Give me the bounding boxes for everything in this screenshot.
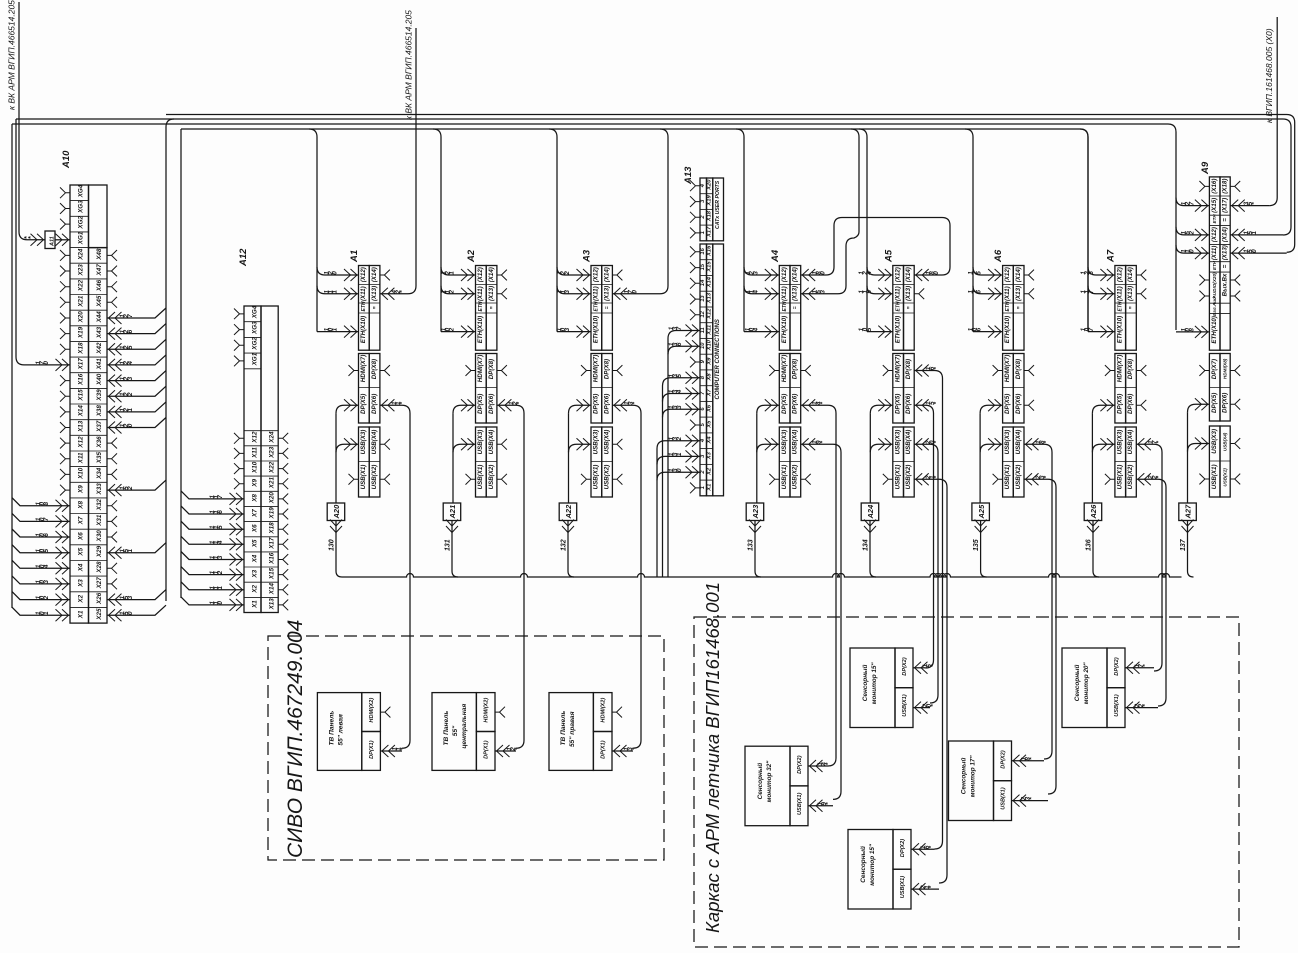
svg-text:=: = [906,306,912,309]
svg-text:USB(X1): USB(X1) [593,465,600,490]
svg-text:=: = [604,306,610,309]
svg-text:0: 0 [1188,249,1195,253]
svg-text:USB(X1): USB(X1) [477,465,484,490]
svg-text:А3: А3 [582,249,593,263]
svg-text:X2: X2 [252,585,259,594]
svg-text:DP(X1): DP(X1) [484,740,490,758]
svg-text:5: 5 [43,548,50,552]
svg-text:USB(X3): USB(X3) [1117,430,1124,455]
svg-text:(X17): (X17) [1222,198,1229,213]
svg-text:135: 135 [973,539,980,551]
svg-text:DP(X6): DP(X6) [905,394,912,414]
svg-text:ETH(X10): ETH(X10) [593,316,600,344]
svg-text:1: 1 [43,611,50,615]
svg-text:USB(X1): USB(X1) [1004,465,1011,490]
svg-text:X11: X11 [78,452,85,464]
svg-text:(X14): (X14) [1222,227,1229,242]
svg-text:(X14): (X14) [603,267,610,282]
svg-text:к ВК АРМ ВГИП.466514.205: к ВК АРМ ВГИП.466514.205 [404,10,414,120]
svg-text:X31: X31 [96,514,103,527]
svg-text:X35: X35 [96,451,103,464]
svg-text:X18: X18 [707,210,713,222]
svg-text:DP(X8): DP(X8) [792,359,799,379]
svg-text:DP(X6): DP(X6) [371,394,378,414]
svg-text:USB(X4): USB(X4) [905,430,912,455]
svg-text:А1: А1 [349,250,360,263]
svg-text:X18: X18 [269,522,276,535]
svg-text:USB(X2): USB(X2) [1223,468,1228,487]
svg-text:X12: X12 [78,436,85,449]
svg-text:(X11): (X11) [360,286,367,301]
svg-text:ETH: ETH [1212,260,1217,270]
svg-text:12: 12 [700,310,706,317]
svg-text:ETH: ETH [594,301,600,311]
svg-text:DP(X5): DP(X5) [360,394,367,414]
svg-text:USB(X3): USB(X3) [894,430,901,455]
svg-text:1: 1 [332,290,339,294]
svg-text:1: 1 [700,231,706,234]
svg-text:X30: X30 [96,530,103,543]
svg-text:3: 3 [43,580,50,584]
svg-text:X12: X12 [252,431,259,444]
svg-text:0: 0 [676,468,683,472]
svg-text:ETH: ETH [1005,301,1011,311]
svg-text:ETH: ETH [1118,301,1124,311]
svg-text:X1: X1 [78,610,85,619]
svg-text:USB(X4): USB(X4) [603,430,610,455]
svg-text:X17: X17 [269,537,276,550]
svg-text:0: 0 [332,271,339,275]
svg-text:USB(X2): USB(X2) [1127,465,1134,490]
svg-text:А26: А26 [1089,504,1098,520]
svg-text:15: 15 [700,263,706,270]
svg-text:X6: X6 [252,524,259,533]
svg-text:USB(X3): USB(X3) [593,430,600,455]
svg-text:USB(X1): USB(X1) [1117,465,1124,490]
svg-text:USB(X1): USB(X1) [900,876,906,899]
svg-text:HDMI(X2): HDMI(X2) [601,698,607,723]
svg-text:А13: А13 [683,166,694,185]
svg-text:DP(X5): DP(X5) [1004,394,1011,414]
svg-text:X40: X40 [96,373,103,386]
svg-text:X5: X5 [707,420,713,429]
svg-text:X6: X6 [78,532,85,541]
svg-text:DP(X5): DP(X5) [1211,393,1218,413]
svg-text:X33: X33 [96,483,103,496]
svg-text:X15: X15 [78,389,85,402]
svg-text:7: 7 [1188,201,1195,205]
svg-text:монитор 17": монитор 17" [970,755,977,798]
svg-text:X24: X24 [78,248,85,261]
svg-text:14: 14 [700,279,706,286]
svg-text:3: 3 [676,405,683,409]
svg-text:USB(X2): USB(X2) [488,465,495,490]
svg-text:А23: А23 [751,504,760,520]
svg-text:X2: X2 [707,467,713,476]
svg-text:X6: X6 [707,404,713,413]
svg-text:X20: X20 [78,311,85,324]
svg-text:монитор 15": монитор 15" [871,662,878,705]
svg-text:ETH: ETH [895,301,901,311]
svg-text:XG1: XG1 [78,231,85,245]
svg-text:HDMI(X7): HDMI(X7) [1004,355,1011,383]
svg-text:1: 1 [700,486,706,489]
svg-text:X8: X8 [252,494,259,503]
svg-text:X27: X27 [96,577,103,590]
svg-text:DP(X1): DP(X1) [601,740,607,758]
svg-text:X16: X16 [269,552,276,565]
svg-text:6: 6 [217,510,224,514]
svg-text:USB(X1): USB(X1) [360,465,367,490]
svg-text:X1: X1 [707,484,713,492]
svg-text:USB(X4): USB(X4) [1127,430,1134,455]
svg-text:DP(X6): DP(X6) [1222,393,1229,413]
svg-text:X22: X22 [269,461,276,474]
svg-text:X21: X21 [269,476,276,489]
svg-text:(X11): (X11) [1211,246,1218,261]
svg-text:X14: X14 [269,582,276,595]
svg-text:X29: X29 [96,545,103,558]
svg-text:X32: X32 [96,498,103,511]
svg-text:Сенсорный: Сенсорный [1073,664,1081,701]
svg-text:HDMI(X2): HDMI(X2) [484,698,490,723]
svg-text:DP(X1): DP(X1) [369,740,375,758]
svg-text:1: 1 [332,327,339,331]
svg-text:(X12): (X12) [1211,227,1218,242]
svg-text:А7: А7 [1105,249,1116,263]
svg-text:X10: X10 [707,339,713,351]
svg-text:USB(X3): USB(X3) [360,430,367,455]
svg-text:13: 13 [700,295,706,302]
svg-text:X13: X13 [78,420,85,433]
svg-text:А2: А2 [466,249,477,263]
svg-text:X3: X3 [252,569,259,578]
svg-text:ТВ Панель: ТВ Панель [328,711,335,746]
svg-text:DP(X2): DP(X2) [902,657,908,675]
svg-text:ETH: ETH [782,301,788,311]
svg-text:X9: X9 [252,479,259,488]
svg-text:XG3: XG3 [78,200,85,214]
svg-text:X17: X17 [78,358,85,371]
svg-text:DP(X7): DP(X7) [1211,359,1218,379]
svg-text:монитор 20": монитор 20" [1083,662,1090,705]
svg-text:ETH(X10): ETH(X10) [360,316,367,344]
svg-text:центральная: центральная [461,704,468,749]
svg-text:=: = [372,306,378,309]
svg-text:(X15): (X15) [1211,198,1218,213]
svg-text:Вгл.Aud: Вгл.Aud [1212,297,1217,316]
svg-text:X16: X16 [707,245,713,257]
svg-text:DP(X6): DP(X6) [488,394,495,414]
svg-text:X4: X4 [78,563,85,572]
svg-text:X38: X38 [96,405,103,418]
svg-text:DP(X6): DP(X6) [603,394,610,414]
svg-text:X7: X7 [707,388,713,397]
svg-text:(X13): (X13) [1127,286,1134,301]
svg-text:ETH(X10): ETH(X10) [1117,316,1124,344]
svg-text:X19: X19 [78,326,85,339]
svg-text:USB(X3): USB(X3) [477,430,484,455]
svg-text:DP(X5): DP(X5) [477,394,484,414]
svg-text:(X11): (X11) [1117,286,1124,301]
svg-text:X14: X14 [707,276,713,288]
svg-text:=: = [1222,264,1229,268]
svg-text:3: 3 [217,555,224,559]
svg-text:X48: X48 [96,248,103,261]
svg-text:А27: А27 [1184,504,1193,520]
svg-text:(X14): (X14) [371,267,378,282]
svg-text:DP(X5): DP(X5) [1117,394,1124,414]
svg-text:(X12): (X12) [477,267,484,282]
svg-text:X9: X9 [707,357,713,366]
svg-text:XG2: XG2 [78,216,85,230]
svg-text:А20: А20 [332,504,341,520]
svg-text:Каркас с АРМ летчика ВГИП16146: Каркас с АРМ летчика ВГИП161468.001 [702,582,723,933]
svg-text:HDMI(X2): HDMI(X2) [369,698,375,723]
svg-text:ТВ Панель: ТВ Панель [443,711,450,746]
svg-text:DP(X5): DP(X5) [593,394,600,414]
svg-text:1: 1 [1251,231,1258,235]
svg-text:X13: X13 [707,292,713,304]
svg-text:X43: X43 [96,326,103,339]
svg-text:3: 3 [127,376,134,380]
svg-text:X37: X37 [96,420,103,433]
svg-text:HDMI(X7): HDMI(X7) [477,355,484,383]
svg-text:USB(X3): USB(X3) [1004,430,1011,455]
svg-text:ETH: ETH [361,301,367,311]
svg-text:USB(X1): USB(X1) [797,792,803,815]
svg-text:X4: X4 [707,436,713,445]
svg-text:X19: X19 [269,507,276,520]
svg-text:А22: А22 [564,504,573,520]
svg-text:HDMI(X7): HDMI(X7) [593,355,600,383]
svg-text:7: 7 [1088,327,1095,331]
svg-text:(X11): (X11) [894,286,901,301]
svg-text:Сенсорный: Сенсорный [756,763,764,800]
svg-text:X7: X7 [252,509,259,518]
svg-text:(X13): (X13) [905,286,912,301]
svg-text:X16: X16 [78,373,85,386]
svg-text:X19: X19 [707,195,713,207]
svg-text:X34: X34 [96,467,103,480]
svg-text:ETH: ETH [478,301,484,311]
svg-text:(X11): (X11) [781,286,788,301]
svg-text:USB(X1): USB(X1) [902,694,908,717]
svg-text:7: 7 [676,326,683,330]
svg-text:(X13): (X13) [371,286,378,301]
svg-text:А21: А21 [448,505,457,520]
svg-text:Сенсорный: Сенсорный [859,846,867,883]
svg-text:DP(X8): DP(X8) [1127,359,1134,379]
svg-text:0: 0 [820,271,827,275]
svg-text:X15: X15 [707,261,713,273]
svg-text:X20: X20 [269,492,276,505]
svg-text:DP(X2): DP(X2) [797,755,803,773]
svg-text:(X13): (X13) [603,286,610,301]
svg-text:X11: X11 [252,447,259,459]
svg-text:USB(X3): USB(X3) [1211,429,1218,454]
svg-text:X18: X18 [78,342,85,355]
svg-text:3: 3 [564,327,571,331]
svg-text:DP(X6): DP(X6) [1127,394,1134,414]
svg-text:=: = [1016,306,1022,309]
svg-text:3: 3 [564,290,571,294]
svg-text:(X12): (X12) [360,267,367,282]
svg-text:5: 5 [217,525,224,529]
svg-text:3: 3 [127,595,134,599]
svg-text:(X11): (X11) [477,286,484,301]
svg-text:(X12): (X12) [781,267,788,282]
svg-text:X44: X44 [96,311,103,324]
svg-text:COMPUTER CONNECTIONS: COMPUTER CONNECTIONS [715,319,721,399]
svg-text:X39: X39 [96,389,103,402]
svg-text:X25: X25 [96,608,103,621]
svg-text:(X13): (X13) [488,286,495,301]
svg-text:DP(X5): DP(X5) [894,394,901,414]
svg-text:X5: X5 [252,539,259,548]
svg-text:X7: X7 [78,516,85,525]
svg-text:USB(X4): USB(X4) [792,430,799,455]
svg-text:монитор 15": монитор 15" [869,843,876,886]
svg-text:(X13): (X13) [792,286,799,301]
svg-text:6: 6 [976,327,983,331]
svg-text:0: 0 [127,611,134,615]
svg-text:X45: X45 [96,295,103,308]
svg-text:(X11): (X11) [1004,286,1011,301]
svg-text:X36: X36 [96,436,103,449]
svg-text:=: = [1222,218,1229,222]
svg-text:X47: X47 [96,264,103,277]
svg-text:А10: А10 [61,150,72,169]
svg-text:(X13): (X13) [1015,286,1022,301]
svg-text:(X12): (X12) [1004,267,1011,282]
svg-text:ETH(X10): ETH(X10) [477,316,484,344]
svg-text:0: 0 [933,271,940,275]
svg-text:16: 16 [700,247,706,254]
svg-text:0: 0 [631,290,638,294]
svg-text:X46: X46 [96,279,103,292]
svg-text:X20: X20 [707,179,713,191]
svg-text:А12: А12 [238,248,249,267]
svg-text:X17: X17 [707,226,713,238]
svg-text:А11: А11 [50,236,56,247]
svg-text:к ВГИП.161468.005 (Х0): к ВГИП.161468.005 (Х0) [1264,28,1274,123]
svg-text:X23: X23 [78,264,85,277]
svg-text:USB(X3): USB(X3) [781,430,788,455]
svg-text:132: 132 [561,539,568,551]
svg-text:ETH(X10): ETH(X10) [781,316,788,344]
svg-text:ETH(X10): ETH(X10) [1211,316,1218,344]
svg-text:X11: X11 [707,325,713,336]
svg-text:5: 5 [127,345,134,349]
svg-text:USB(X2): USB(X2) [792,465,799,490]
svg-text:USB(X4): USB(X4) [371,430,378,455]
svg-text:А9: А9 [1200,161,1211,175]
svg-text:1: 1 [676,452,683,456]
svg-text:X3: X3 [707,451,713,460]
svg-text:X24: X24 [269,431,276,444]
svg-text:7: 7 [217,495,224,499]
svg-text:USB(X4): USB(X4) [488,430,495,455]
svg-text:11: 11 [700,327,706,333]
svg-text:DP(X8): DP(X8) [1015,359,1022,379]
svg-text:DP(X8): DP(X8) [905,359,912,379]
svg-text:А4: А4 [770,249,781,263]
svg-text:USB(X1): USB(X1) [1114,694,1120,717]
svg-text:DP(X8): DP(X8) [603,359,610,379]
svg-text:3: 3 [752,271,759,275]
svg-text:DP(X6): DP(X6) [792,394,799,414]
svg-text:XG1: XG1 [252,352,259,366]
svg-text:X10: X10 [252,461,259,474]
svg-text:3: 3 [820,290,827,294]
svg-text:X8: X8 [707,373,713,382]
svg-text:HDMI(X7): HDMI(X7) [781,355,788,383]
svg-text:X41: X41 [96,358,103,371]
svg-text:USB(X1): USB(X1) [1211,464,1218,489]
svg-text:ETH: ETH [1212,214,1217,224]
svg-text:X42: X42 [96,342,103,355]
svg-text:Сенсорный: Сенсорный [861,664,869,701]
svg-text:0: 0 [1251,249,1258,253]
svg-text:(X14): (X14) [1127,267,1134,282]
svg-text:XG3: XG3 [252,321,259,335]
svg-text:А5: А5 [883,249,894,263]
svg-text:DP(X8): DP(X8) [488,359,495,379]
svg-text:1: 1 [127,548,134,552]
svg-text:А24: А24 [866,504,875,520]
svg-text:X15: X15 [269,567,276,580]
svg-text:XG2: XG2 [252,337,259,351]
svg-text:USB(X4): USB(X4) [1015,430,1022,455]
svg-text:X3: X3 [78,579,85,588]
svg-text:(X14): (X14) [792,267,799,282]
svg-text:XG4: XG4 [252,305,259,319]
svg-text:131: 131 [445,539,452,551]
svg-text:XG4: XG4 [78,184,85,198]
svg-text:130: 130 [329,539,336,551]
svg-text:X1: X1 [252,600,259,609]
svg-text:ETH(X10): ETH(X10) [894,316,901,344]
svg-text:1: 1 [127,408,134,412]
svg-text:(X14): (X14) [1015,267,1022,282]
svg-text:5: 5 [676,374,683,378]
svg-text:=: = [1128,306,1134,309]
svg-text:1: 1 [449,271,456,275]
svg-text:133: 133 [748,539,755,551]
svg-text:X14: X14 [78,405,85,418]
svg-text:X28: X28 [96,561,103,574]
svg-text:(X16): (X16) [1211,179,1218,194]
svg-text:55": 55" [452,725,459,736]
svg-text:DP(X2): DP(X2) [1114,657,1120,675]
svg-text:10: 10 [700,342,706,349]
svg-text:X5: X5 [78,547,85,556]
svg-text:X13: X13 [269,598,276,611]
svg-text:CATx USER PORTS: CATx USER PORTS [715,180,721,229]
svg-text:А6: А6 [993,249,1004,263]
svg-text:HDMI(X7): HDMI(X7) [894,355,901,383]
svg-text:8: 8 [43,501,50,505]
svg-text:6: 6 [127,329,134,333]
svg-text:137: 137 [1180,538,1187,551]
svg-text:0: 0 [43,361,50,365]
svg-text:СИВО ВГИП.467249.004: СИВО ВГИП.467249.004 [284,620,307,858]
svg-text:USB(X2): USB(X2) [905,465,912,490]
svg-text:DP(X8): DP(X8) [371,359,378,379]
svg-text:55" левая: 55" левая [337,714,344,746]
svg-text:HDMI(X8): HDMI(X8) [1223,358,1228,379]
